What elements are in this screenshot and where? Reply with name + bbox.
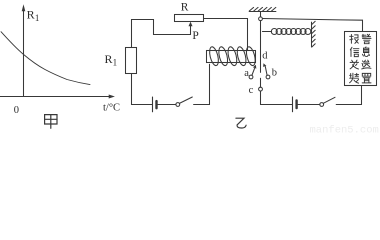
rheostat R [175,15,204,22]
wall support [312,21,316,47]
svg-text:1: 1 [113,58,118,68]
wire alarm box bottom [361,86,363,105]
wire switch to alarm box [336,104,361,106]
rheostat slider P [190,26,192,35]
char 警 [362,34,371,43]
wire R1 bottom to battery [132,74,153,105]
wire R1 top to slider P [132,20,191,48]
wire battery to switch S2 [298,104,320,106]
caption 乙 [236,118,246,128]
switch S1 [176,103,180,107]
svg-text:1: 1 [35,13,40,23]
contact b [266,75,270,79]
char 装 [350,73,359,83]
armature rod [260,21,262,73]
switch S2 [320,103,324,107]
svg-text:t/°C: t/°C [103,103,120,114]
wire pivot to alarm box [262,19,362,32]
wire c corner to battery B2 [261,104,292,106]
svg-text:R: R [105,52,113,66]
svg-text:P: P [192,30,198,42]
char 信 [350,47,359,56]
svg-text:R: R [27,8,35,22]
graph y-axis [23,9,25,97]
solenoid core [207,51,256,63]
svg-text:0: 0 [14,105,19,116]
svg-text:manfen5.com: manfen5.com [310,125,379,136]
wire switch to coil [194,64,210,104]
terminal c [259,87,263,91]
graph curve R1 vs t [1,32,90,85]
battery B2 [292,97,294,112]
wire battery to switch [158,104,176,106]
char 送 [362,60,371,69]
char 息 [363,47,370,57]
solenoid coil L [208,46,257,66]
graph caption 甲 [45,115,57,129]
svg-text:c: c [249,85,254,96]
svg-text:b: b [272,68,277,79]
alarm box [345,32,377,86]
alarm box text 报警信息发送装置 [350,34,371,83]
battery B1 [152,97,154,112]
pivot [259,17,263,21]
resistor R1 [126,48,137,74]
pivot stub [260,12,262,17]
wire rheostat to coil [204,19,248,51]
wire c to bottom [260,91,262,105]
svg-text:R: R [181,1,189,13]
char 置 [362,73,371,83]
graph x-axis [0,96,110,98]
svg-text:a: a [244,68,249,79]
ceiling support [249,7,276,11]
contact a [249,75,253,79]
char 发 [350,60,358,69]
char 报 [350,35,359,44]
armature lower segment [260,78,262,87]
svg-text:d: d [262,50,268,61]
spring [262,29,311,35]
